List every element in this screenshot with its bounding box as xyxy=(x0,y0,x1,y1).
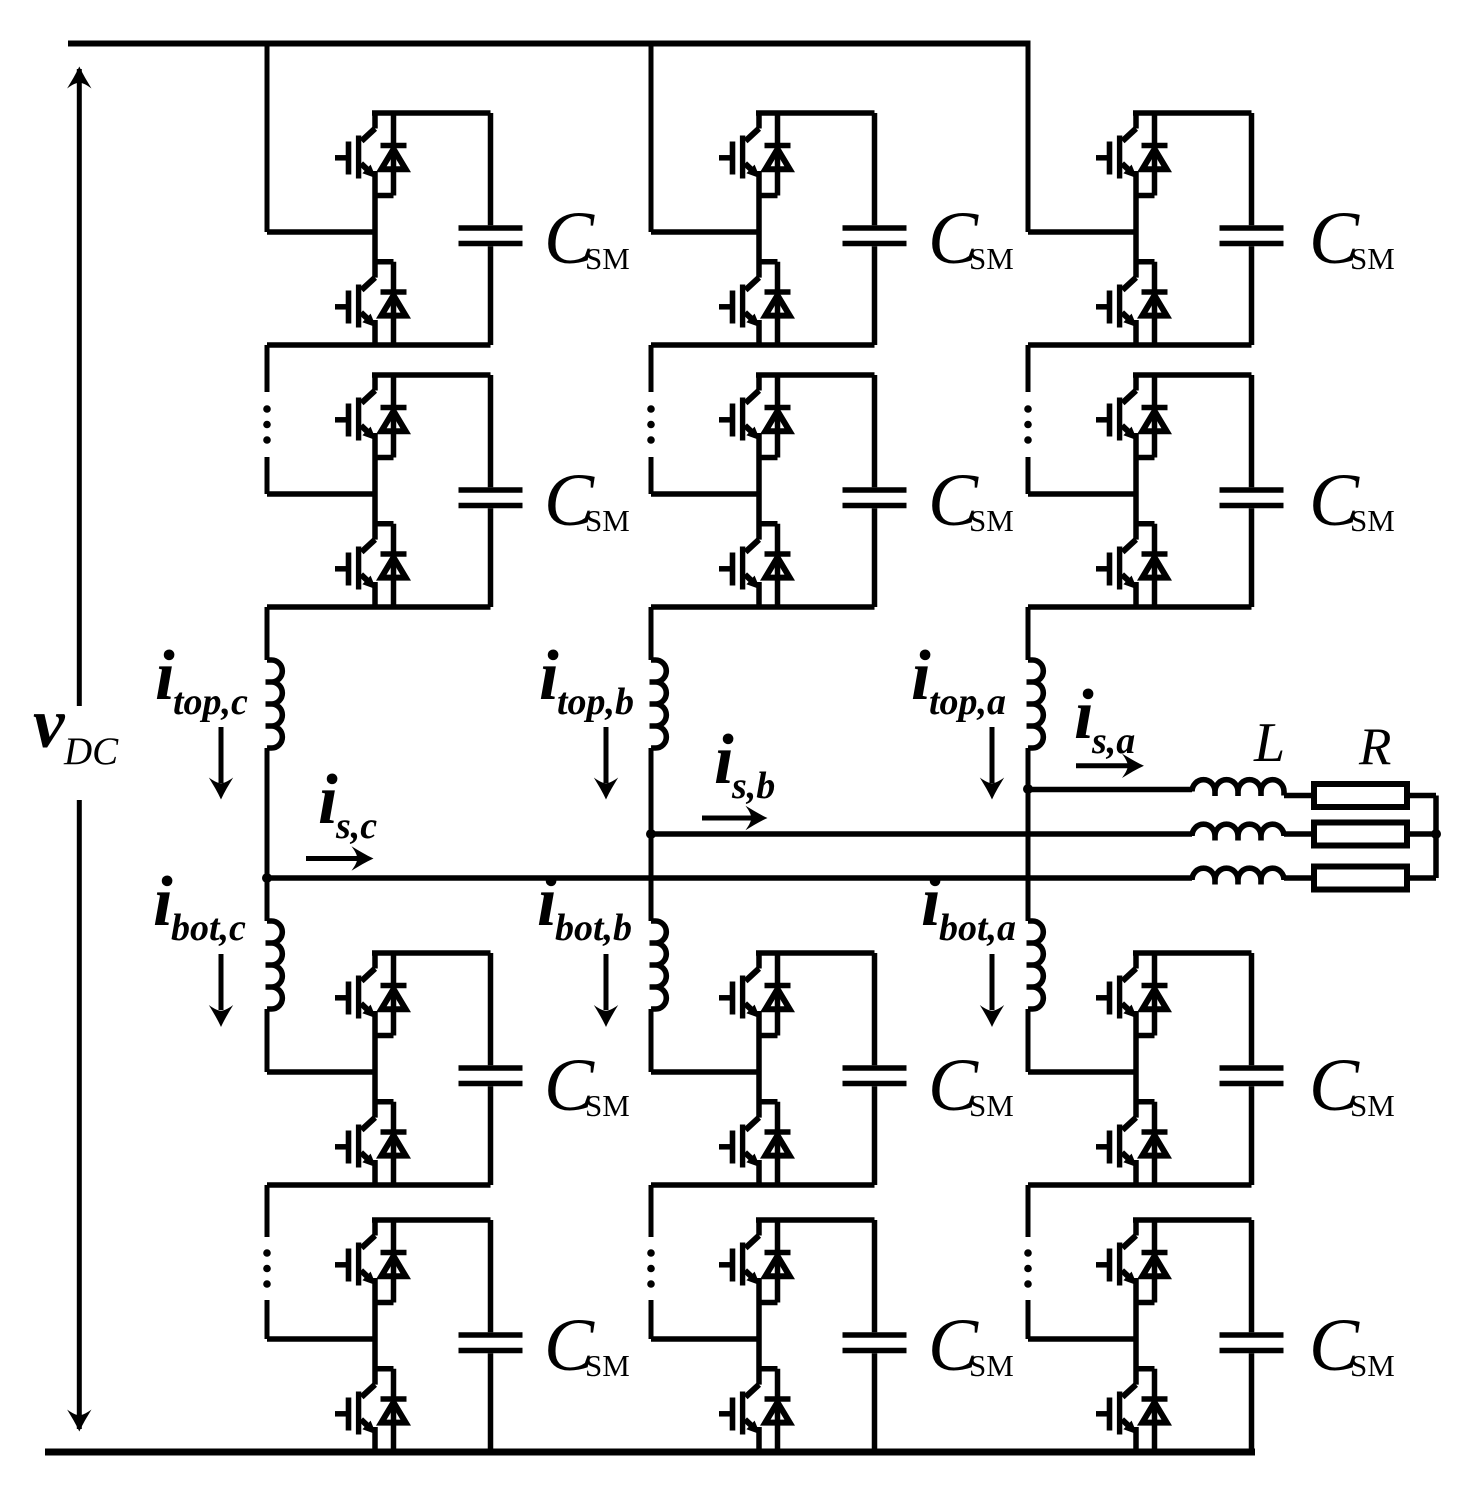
wire: inductor to SM3c midpoint xyxy=(265,1009,270,1072)
arrow i_bot,a xyxy=(990,954,995,1010)
svg-text:bot,a: bot,a xyxy=(939,907,1016,949)
DC- bottom bus xyxy=(45,1449,1255,1456)
wire: SM3a bottom to dots xyxy=(1026,1185,1031,1237)
wire: node b down to bottom arm inductor xyxy=(649,834,654,921)
wire: resistor a to right bus xyxy=(1407,793,1436,799)
wire: SM2a bottom to arm inductor xyxy=(1026,607,1031,660)
wire: coil b to resistor b xyxy=(1284,831,1314,837)
svg-text:i: i xyxy=(714,721,734,799)
arm inductor bottom a xyxy=(1027,921,1044,1009)
wire: phase a output xyxy=(1028,787,1192,793)
wire: node a down to bottom arm inductor xyxy=(1026,789,1031,921)
load resistor R phase c xyxy=(1314,867,1407,890)
wire: dots to SM4c midpoint xyxy=(265,1300,270,1339)
svg-text:SM: SM xyxy=(585,241,630,276)
arm inductor top a xyxy=(1027,660,1044,748)
dots continuation top arm c xyxy=(263,405,271,444)
load inductor L phase a xyxy=(1192,780,1284,796)
svg-text:SM: SM xyxy=(969,503,1014,538)
svg-text:DC: DC xyxy=(63,730,119,773)
submodule SM1a xyxy=(1028,113,1284,345)
submodule SM4c xyxy=(267,1220,523,1452)
submodule SM3c xyxy=(267,953,523,1185)
svg-text:bot,c: bot,c xyxy=(171,907,246,949)
wire: dots to SM2b midpoint xyxy=(649,457,654,494)
arm inductor bottom b xyxy=(650,921,667,1009)
submodule SM4b xyxy=(651,1220,907,1452)
svg-text:SM: SM xyxy=(1350,1348,1395,1383)
svg-text:SM: SM xyxy=(969,1088,1014,1123)
submodule SM4a xyxy=(1028,1220,1284,1452)
wire: inductor to SM3a midpoint xyxy=(1026,1009,1031,1072)
wire: coil a to resistor a xyxy=(1284,793,1314,799)
svg-text:R: R xyxy=(1358,718,1391,776)
wire: dots to SM2a midpoint xyxy=(1026,457,1031,494)
wire: SM2b bottom to arm inductor xyxy=(649,607,654,660)
vDC arrowhead bottom xyxy=(67,1410,91,1432)
wire: dots to SM2c midpoint xyxy=(265,457,270,494)
wire: inductor to SM3b midpoint xyxy=(649,1009,654,1072)
svg-text:i: i xyxy=(911,637,931,715)
svg-text:SM: SM xyxy=(969,241,1014,276)
dots continuation bottom arm b xyxy=(647,1249,655,1288)
arm inductor top b xyxy=(650,660,667,748)
wire: inductor to phase node b xyxy=(649,748,654,834)
wire: inductor to phase node a xyxy=(1026,748,1031,789)
dots continuation top arm b xyxy=(647,405,655,444)
svg-text:SM: SM xyxy=(1350,1088,1395,1123)
node right bus xyxy=(1431,829,1441,839)
wire: top bus down to SM1b midpoint xyxy=(649,44,654,233)
wire: SM1a bottom to dots xyxy=(1026,345,1031,392)
arm inductor top c xyxy=(266,660,283,748)
submodule SM1b xyxy=(651,113,907,345)
phase node b xyxy=(646,829,656,839)
svg-text:v: v xyxy=(33,685,66,763)
vDC arrow shaft xyxy=(77,69,82,1429)
wire: resistor b to right bus xyxy=(1407,831,1436,837)
svg-text:L: L xyxy=(1253,712,1285,774)
submodule SM3a xyxy=(1028,953,1284,1185)
arrow i_s,b xyxy=(702,816,753,821)
phase node a xyxy=(1023,784,1033,794)
wire: resistor c to right bus xyxy=(1407,875,1436,881)
wire: dots to SM4b midpoint xyxy=(649,1300,654,1339)
svg-text:top,b: top,b xyxy=(557,681,634,723)
load inductor L phase b xyxy=(1192,824,1284,840)
arrow i_top,b xyxy=(604,727,609,783)
svg-text:s,a: s,a xyxy=(1091,720,1135,762)
svg-text:i: i xyxy=(921,863,941,941)
wire: coil c to resistor c xyxy=(1284,875,1314,881)
submodule SM2a xyxy=(1028,375,1284,607)
wire: SM2c bottom to arm inductor xyxy=(265,607,270,660)
svg-text:SM: SM xyxy=(1350,241,1395,276)
submodule SM2c xyxy=(267,375,523,607)
svg-text:SM: SM xyxy=(585,1088,630,1123)
wire: top bus down to SM1a midpoint xyxy=(1026,44,1031,233)
dots continuation top arm a xyxy=(1024,405,1032,444)
dots continuation bottom arm a xyxy=(1024,1249,1032,1288)
wire: phase b output xyxy=(651,831,1192,837)
svg-text:i: i xyxy=(318,761,338,839)
svg-text:top,a: top,a xyxy=(929,681,1006,723)
svg-text:i: i xyxy=(537,863,557,941)
svg-text:s,c: s,c xyxy=(335,805,377,847)
load inductor L phase c xyxy=(1192,868,1284,884)
arrow i_s,c xyxy=(306,856,359,861)
svg-text:s,b: s,b xyxy=(731,765,775,807)
arrow i_s,a xyxy=(1076,763,1130,768)
load resistor R phase b xyxy=(1314,823,1407,846)
svg-text:SM: SM xyxy=(969,1348,1014,1383)
dots continuation bottom arm c xyxy=(263,1249,271,1288)
wire: SM3c bottom to dots xyxy=(265,1185,270,1237)
svg-text:i: i xyxy=(155,637,175,715)
svg-text:SM: SM xyxy=(1350,503,1395,538)
wire: inductor to phase node c xyxy=(265,748,270,878)
arrow i_top,a xyxy=(990,727,995,783)
arm inductor bottom c xyxy=(266,921,283,1009)
wire: top bus down to SM1c midpoint xyxy=(265,44,270,233)
submodule SM3b xyxy=(651,953,907,1185)
submodule SM2b xyxy=(651,375,907,607)
svg-text:i: i xyxy=(1074,676,1094,754)
wire: phase c output xyxy=(267,875,1192,881)
svg-text:i: i xyxy=(539,637,559,715)
wire: SM1b bottom to dots xyxy=(649,345,654,392)
svg-text:top,c: top,c xyxy=(173,681,248,723)
vDC arrowhead top xyxy=(67,67,91,89)
DC+ top bus xyxy=(68,41,1031,47)
wire: SM3b bottom to dots xyxy=(649,1185,654,1237)
svg-text:SM: SM xyxy=(585,1348,630,1383)
wire: SM1c bottom to dots xyxy=(265,345,270,392)
load resistor R phase a xyxy=(1314,784,1407,807)
wire: dots to SM4a midpoint xyxy=(1026,1300,1031,1339)
wire: node c down to bottom arm inductor xyxy=(265,878,270,921)
arrow i_top,c xyxy=(219,727,224,783)
arrow i_bot,b xyxy=(604,954,609,1010)
svg-text:bot,b: bot,b xyxy=(555,907,632,949)
arrow i_bot,c xyxy=(219,954,224,1010)
svg-text:SM: SM xyxy=(585,503,630,538)
wire: right star-point bus xyxy=(1433,796,1439,879)
phase node c xyxy=(262,873,272,883)
submodule SM1c xyxy=(267,113,523,345)
svg-text:i: i xyxy=(153,863,173,941)
